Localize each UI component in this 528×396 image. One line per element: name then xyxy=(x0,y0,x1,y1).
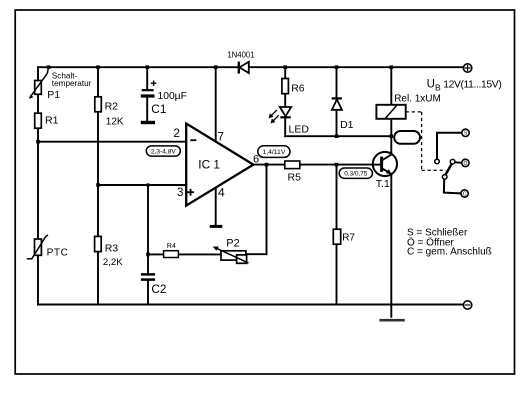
svg-text:R5: R5 xyxy=(288,172,302,184)
svg-text:12V(11...15V): 12V(11...15V) xyxy=(443,79,501,90)
svg-text:T.1: T.1 xyxy=(376,178,390,190)
wire R2 top xyxy=(97,67,99,97)
wire relay to collector xyxy=(390,119,392,154)
oval label 2,3-4,8V xyxy=(146,146,180,156)
wire PTC to bottom rail xyxy=(37,255,39,304)
wire op-amp output xyxy=(253,164,285,166)
wire R6 top xyxy=(284,67,286,78)
terminal Ö xyxy=(462,159,469,167)
svg-text:P2: P2 xyxy=(226,237,239,249)
wire C2 to bottom rail xyxy=(147,281,149,305)
potentiometer P2 xyxy=(221,251,246,260)
ground bar emitter xyxy=(379,319,404,322)
ground bar pin 4 xyxy=(210,225,223,228)
terminal S xyxy=(462,129,469,137)
op-amp IC1 xyxy=(186,124,253,206)
svg-text:4: 4 xyxy=(218,186,225,200)
svg-text:12K: 12K xyxy=(106,117,124,128)
svg-text:Rel. 1xUM: Rel. 1xUM xyxy=(394,94,441,105)
capacitor C1 xyxy=(141,81,157,123)
svg-text:IC 1: IC 1 xyxy=(198,157,220,171)
wire feedback to R4 xyxy=(148,253,164,255)
svg-text:1N4001: 1N4001 xyxy=(227,51,254,60)
wire D1 bottom xyxy=(336,110,338,136)
resistor R4 xyxy=(164,251,179,258)
P2 wiper arrow xyxy=(213,247,249,264)
svg-text:P1: P1 xyxy=(47,89,60,101)
wire LED/D1 bottoms to collector xyxy=(285,135,391,137)
switch contact S wire xyxy=(437,133,462,160)
wire R5 to base xyxy=(299,164,380,166)
resistor P1 xyxy=(35,81,42,95)
P1 wiper arrow xyxy=(29,67,49,99)
svg-text:2: 2 xyxy=(174,128,180,140)
switch pivot circle left xyxy=(435,159,440,164)
wire bottom rail xyxy=(38,304,463,306)
transistor T1 xyxy=(372,152,397,176)
oval label 1,4/11V xyxy=(258,146,290,158)
svg-text:1,4/11V: 1,4/11V xyxy=(262,149,285,156)
LED xyxy=(280,107,291,117)
oval relay contact capsule xyxy=(394,131,420,144)
junction relay / top rail xyxy=(390,65,394,69)
wire relay top xyxy=(390,67,392,105)
wire P2 to corner xyxy=(246,253,267,255)
switch arm xyxy=(445,164,451,175)
wire left rail top xyxy=(37,67,39,80)
PTC diagonal mark xyxy=(27,235,48,259)
resistor R2 xyxy=(95,97,102,112)
pin 2 minus sign xyxy=(190,139,196,141)
junction left rail / pin 2 wire xyxy=(36,140,40,144)
wire R1 to PTC xyxy=(37,128,39,239)
diode 1N4001 xyxy=(239,62,249,74)
wire pin 4 to ground bar xyxy=(215,188,217,225)
wire R7 column top xyxy=(336,165,338,230)
wire R2 to R3 xyxy=(97,112,99,237)
wire C1 bottom stub xyxy=(146,98,148,122)
svg-text:R4: R4 xyxy=(167,243,176,250)
capacitor C2 xyxy=(141,274,155,279)
wire feedback column to C2 xyxy=(147,185,149,273)
svg-text:temperatur: temperatur xyxy=(52,79,92,88)
junction feedback column / R4 wire xyxy=(146,253,150,257)
wire inverting input (pin 2) xyxy=(38,141,186,143)
junction R2-R3 / pin 3 wire xyxy=(96,183,100,187)
oval label 0,3/0,75 xyxy=(339,168,372,178)
svg-text:7: 7 xyxy=(218,132,224,144)
wire top rail right of diode xyxy=(249,66,464,68)
terminal C xyxy=(461,190,468,198)
wire emitter to ground xyxy=(390,174,392,317)
svg-text:D1: D1 xyxy=(340,119,354,131)
LED light arrows xyxy=(269,110,279,123)
svg-text:100µF: 100µF xyxy=(158,91,187,102)
wire LED cathode down xyxy=(284,117,286,136)
svg-text:PTC: PTC xyxy=(47,247,69,258)
relay coil diagonal xyxy=(385,105,397,119)
switch middle wire xyxy=(455,161,462,163)
resistor R3 xyxy=(95,236,102,251)
svg-text:0,3/0,75: 0,3/0,75 xyxy=(344,171,368,178)
svg-text:R3: R3 xyxy=(105,243,119,255)
resistor R6 xyxy=(282,79,289,94)
junction R2 / top rail xyxy=(96,65,100,69)
wire feedback riser xyxy=(266,165,268,255)
svg-text:3: 3 xyxy=(177,187,183,199)
junction output / feedback riser xyxy=(265,163,269,167)
svg-text:C2: C2 xyxy=(151,282,166,296)
junction P1 wiper / top rail xyxy=(47,65,51,69)
junction D1 / LED wire xyxy=(335,134,339,138)
resistor R1 xyxy=(35,113,42,128)
junction collector / LED wire xyxy=(390,135,393,138)
pin 3 plus sign xyxy=(187,189,194,196)
switch arm circle top xyxy=(450,159,455,164)
diode D1 xyxy=(332,98,342,109)
wire top rail left of diode xyxy=(38,66,239,68)
svg-text:2,3-4,8V: 2,3-4,8V xyxy=(151,148,177,155)
svg-text:R2: R2 xyxy=(105,100,119,112)
svg-text:C1: C1 xyxy=(151,102,166,116)
svg-text:R6: R6 xyxy=(291,83,305,95)
svg-text:C = gem. Anschluß: C = gem. Anschluß xyxy=(407,247,492,258)
svg-text:6: 6 xyxy=(253,154,259,166)
wire R7 to bottom rail xyxy=(336,244,338,304)
wire P1 to R1 xyxy=(37,94,39,113)
svg-text:LED: LED xyxy=(289,123,310,135)
relay dashed linkage xyxy=(406,112,446,170)
wire C1 top xyxy=(146,67,148,89)
switch arm circle bottom xyxy=(442,175,447,180)
junction feedback column / pin 3 wire xyxy=(146,183,149,186)
junction pin 7 / top rail xyxy=(214,65,218,69)
wire pin 7 supply xyxy=(215,67,217,141)
wire D1 top xyxy=(336,67,338,98)
svg-text:2,2K: 2,2K xyxy=(103,257,123,268)
svg-text:R1: R1 xyxy=(45,114,59,126)
resistor R5 xyxy=(285,161,300,169)
svg-text:Ö: Ö xyxy=(463,160,467,167)
junction C1 / top rail xyxy=(145,65,149,69)
switch bottom wire xyxy=(444,179,461,193)
wire R3 to bottom rail xyxy=(97,252,99,305)
svg-text:U: U xyxy=(427,79,435,91)
resistor R7 xyxy=(333,229,340,244)
terminal minus xyxy=(463,301,471,309)
wire R6 to LED xyxy=(284,94,286,107)
svg-text:R7: R7 xyxy=(342,232,355,243)
svg-text:C: C xyxy=(463,192,467,198)
relay coil K1 xyxy=(376,105,405,119)
svg-text:B: B xyxy=(435,82,441,92)
thermistor PTC xyxy=(35,239,42,255)
wire noninverting input (pin 3) xyxy=(98,184,186,186)
junction D1 / top rail xyxy=(335,65,339,69)
terminal plus UB xyxy=(463,64,471,72)
junction base wire / R7 xyxy=(335,163,339,167)
wire R4 to P2 xyxy=(178,253,221,255)
junction R6 / top rail xyxy=(283,65,287,69)
